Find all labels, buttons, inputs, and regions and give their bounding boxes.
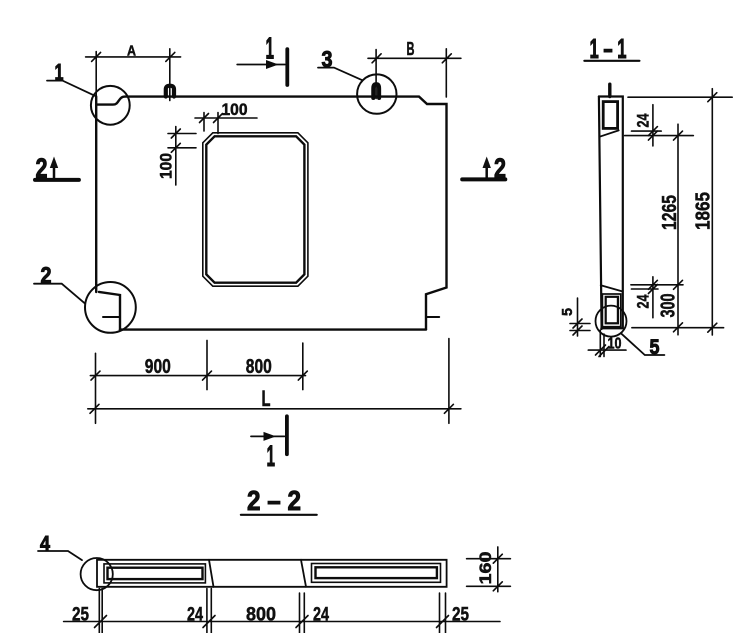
svg-text:25: 25 — [452, 605, 469, 626]
svg-text:100: 100 — [158, 153, 176, 179]
section title 2-2 — [241, 485, 317, 516]
svg-text:24: 24 — [634, 113, 653, 127]
section 1-1 bottom groove diagonal — [601, 285, 622, 291]
svg-text:1 – 1: 1 – 1 — [590, 33, 627, 64]
detail circle 4 — [81, 558, 113, 590]
section 1-1 bottom groove box inner — [606, 297, 618, 324]
dimension 5 (section 1-1) — [559, 298, 590, 336]
section 1-1 top groove diagonal — [600, 130, 619, 136]
section 2-2 extension lines below — [99, 589, 445, 633]
svg-text:L: L — [262, 386, 271, 411]
section mark 2 left — [35, 153, 79, 184]
dimension 10 (section 1-1) — [588, 330, 626, 357]
svg-text:900: 900 — [145, 355, 171, 378]
panel outline (plan view) — [96, 97, 446, 331]
dimension 24 top (section 1-1) — [634, 105, 658, 146]
section 2-2 left void outer — [104, 564, 205, 583]
svg-text:24: 24 — [634, 294, 653, 308]
opening inner outline — [206, 136, 304, 282]
section 2-2 joint left — [209, 560, 214, 587]
section 1-1 bottom groove box outer — [602, 294, 620, 327]
svg-text:1865: 1865 — [693, 192, 715, 230]
section 2-2 right void outer — [312, 564, 441, 583]
lifting loop right — [373, 84, 379, 98]
svg-text:300: 300 — [658, 294, 680, 318]
dimension 1865 line — [693, 89, 717, 335]
svg-text:1265: 1265 — [659, 195, 681, 230]
dimension A — [86, 42, 181, 100]
svg-text:160: 160 — [476, 552, 495, 585]
svg-text:B: B — [407, 39, 415, 59]
svg-text:2 – 2: 2 – 2 — [247, 485, 301, 516]
svg-text:4: 4 — [40, 533, 50, 556]
dimension 24 bottom (section 1-1) — [634, 277, 658, 318]
section title 1-1 — [584, 33, 639, 64]
panel corner stub bottom-left — [103, 316, 120, 318]
svg-text:24: 24 — [313, 605, 329, 626]
section 2-2 right void inner — [316, 567, 437, 578]
section mark 2 right — [462, 153, 506, 184]
label 1 — [47, 59, 96, 96]
dimension 1265 / 300 line — [658, 124, 683, 335]
dimension 100 left vertical — [158, 127, 197, 186]
section 1-1 lifting pin — [608, 84, 611, 96]
svg-text:10: 10 — [608, 336, 622, 353]
svg-text:800: 800 — [246, 605, 276, 626]
svg-text:100: 100 — [222, 101, 248, 119]
label 5 — [621, 333, 664, 359]
lifting loop left — [166, 86, 174, 97]
svg-text:2: 2 — [36, 153, 48, 184]
section 1-1 panel outline — [599, 97, 623, 330]
dimension B — [368, 39, 461, 99]
section mark 1 top — [237, 31, 287, 86]
section 2-2 left void inner — [108, 568, 203, 579]
section 2-2 bottom dimension line 25/24/800/24/25 — [64, 605, 500, 628]
dimension 100 top (opening offset) — [195, 101, 257, 134]
svg-text:5: 5 — [559, 308, 576, 316]
svg-text:5: 5 — [650, 336, 660, 359]
label 2 — [34, 262, 85, 303]
section 2-2 joint right — [301, 560, 306, 587]
svg-text:800: 800 — [246, 355, 272, 378]
detail circle 2 — [85, 282, 136, 333]
svg-text:24: 24 — [187, 605, 203, 626]
dimension 900 / 800 — [90, 340, 307, 423]
svg-text:1: 1 — [266, 31, 275, 66]
section 1-1 top groove box — [603, 102, 617, 129]
dimension 160 (section 2-2) — [467, 547, 511, 592]
detail circle 5 — [596, 306, 627, 337]
svg-text:25: 25 — [72, 605, 89, 626]
section 2-2 bar outline — [97, 560, 447, 587]
detail circle 3 — [357, 74, 396, 113]
label 4 — [38, 533, 82, 561]
svg-text:1: 1 — [267, 440, 276, 473]
svg-text:A: A — [127, 42, 136, 59]
detail circle 1 — [91, 86, 130, 125]
label 3 — [318, 46, 363, 80]
svg-text:2: 2 — [494, 153, 506, 184]
opening outer outline — [203, 133, 308, 286]
section 1-1 extension lines right — [625, 97, 733, 328]
panel corner stub bottom-right — [426, 316, 439, 318]
dimension L — [88, 339, 461, 424]
section mark 1 bottom — [251, 416, 287, 473]
